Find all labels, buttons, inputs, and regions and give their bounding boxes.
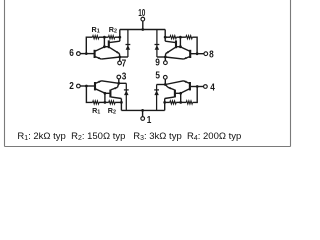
- wire R2 to rail riser: [115, 36, 121, 39]
- wire input 4 to Q7 base: [191, 86, 204, 88]
- svg-text:9: 9: [155, 58, 160, 69]
- wire Q7 emitter to output: [165, 81, 183, 85]
- wire rail riser BL: [120, 99, 122, 111]
- svg-text:2: 2: [69, 81, 74, 92]
- wire input 6 to Q1 base: [80, 53, 94, 55]
- resistor R2 lower: [109, 101, 115, 104]
- svg-text:R2: R2: [108, 106, 116, 116]
- svg-text:R1: 2kΩ typ R2: 150Ω typ R3: R1: 2kΩ typ R2: 150Ω typ R3: 3kΩ typ R4:…: [17, 131, 241, 142]
- pin 5 label: [155, 71, 160, 82]
- node output 7: [118, 56, 121, 59]
- resistor R4: [170, 36, 176, 39]
- node input 6 junction: [85, 52, 88, 55]
- caption resistor values: [17, 131, 241, 142]
- svg-text:1: 1: [147, 115, 152, 126]
- wire diode to output node right: [157, 56, 165, 58]
- node output 5: [164, 83, 167, 86]
- border frame left: [4, 0, 6, 147]
- svg-text:5: 5: [155, 71, 160, 82]
- pin 6 terminal: [77, 52, 81, 56]
- pin 4 label: [210, 82, 215, 93]
- transistor Q2: [109, 40, 120, 57]
- transistor Q6: [110, 83, 121, 98]
- transistor Q8: [165, 85, 175, 99]
- wire diode to output node BR: [157, 84, 166, 86]
- wire Q3 emitter to output: [165, 57, 183, 59]
- wire input riser BR: [193, 87, 198, 103]
- pin 7 label: [122, 59, 127, 70]
- resistor R3 lower: [186, 101, 192, 104]
- svg-text:8: 8: [209, 50, 214, 61]
- node N4: [179, 101, 182, 104]
- svg-text:6: 6: [69, 48, 74, 59]
- resistor R4 lower: [170, 101, 176, 104]
- pin 9 label: [155, 58, 160, 69]
- node N1: [103, 36, 106, 39]
- pin 7 terminal: [118, 57, 122, 65]
- resistor R1: [93, 36, 99, 39]
- node output 3: [117, 82, 120, 85]
- resistor R2: [108, 36, 114, 39]
- R1 label: [91, 25, 99, 35]
- pin 6 label: [69, 48, 74, 59]
- wire input riser BL: [86, 86, 92, 102]
- transistor Q7: [181, 81, 190, 93]
- svg-text:10: 10: [138, 8, 145, 19]
- wire diode to output node BL: [119, 82, 127, 84]
- border frame bottom: [5, 146, 291, 148]
- wire R2 to rail riser BL: [115, 101, 123, 104]
- wire bottom common rail: [121, 109, 164, 111]
- wire N3 to Q6 base: [104, 92, 111, 103]
- wire N1 to Q2 base: [103, 37, 109, 48]
- svg-text:R1: R1: [92, 106, 100, 116]
- node input 2 junction: [85, 85, 88, 88]
- transistor Q4: [165, 40, 176, 57]
- pin 2 label: [69, 81, 74, 92]
- pin 4 terminal: [204, 85, 208, 89]
- resistor R3: [186, 36, 192, 39]
- pin 3 terminal: [117, 75, 121, 83]
- svg-text:R2: R2: [109, 25, 117, 35]
- pin 1 terminal: [141, 109, 145, 120]
- svg-text:R1: R1: [91, 25, 99, 35]
- border frame right: [290, 0, 292, 147]
- diode D2: [155, 30, 160, 58]
- wire R1 to R2 BL: [99, 101, 109, 103]
- pin 10 terminal: [141, 17, 145, 31]
- wire input 2 to Q5 base: [80, 85, 94, 87]
- svg-text:7: 7: [122, 59, 127, 70]
- pin 10 label: [138, 8, 145, 19]
- diode D1: [126, 30, 131, 58]
- wire rail riser right: [164, 30, 166, 42]
- wire R3 to R4: [176, 36, 186, 38]
- pin 1 label: [147, 115, 152, 126]
- wire Q5 emitter to output: [102, 81, 119, 84]
- transistor Q1: [95, 47, 105, 59]
- wire input riser: [86, 37, 92, 53]
- wire N2 to Q4 base: [176, 37, 182, 48]
- node input 8 junction: [196, 52, 199, 55]
- pin 5 terminal: [163, 75, 167, 84]
- wire top common rail: [120, 29, 165, 31]
- wire input 8 to Q3 base: [190, 53, 204, 55]
- node N2: [179, 36, 182, 39]
- node input 4 junction: [196, 85, 199, 88]
- wire rail riser BR: [164, 99, 166, 111]
- pin 2 terminal: [77, 84, 81, 88]
- node N3: [104, 101, 107, 104]
- wire R4 to rail riser: [164, 36, 170, 39]
- R2 label lower: [108, 106, 116, 116]
- transistor Q3: [180, 47, 190, 59]
- R1 label lower: [92, 106, 100, 116]
- svg-text:3: 3: [122, 72, 127, 83]
- wire R3 to R4 BR: [176, 101, 186, 103]
- R2 label: [109, 25, 117, 35]
- diode D3: [124, 83, 129, 110]
- wire input riser right: [192, 37, 197, 54]
- node output 9: [164, 56, 167, 59]
- wire R1 to R2: [99, 36, 109, 38]
- svg-text:4: 4: [210, 82, 215, 93]
- wire rail riser: [119, 30, 121, 42]
- resistor R1 lower: [93, 101, 99, 104]
- wire Q1 emitter to output: [101, 57, 120, 59]
- transistor Q5: [95, 81, 105, 93]
- pin 8 terminal: [204, 52, 208, 56]
- wire diode to output node: [120, 56, 128, 58]
- pin 9 terminal: [164, 57, 168, 65]
- diode D4: [154, 85, 159, 111]
- wire R4 to rail riser BR: [163, 101, 170, 104]
- pin 3 label: [122, 72, 127, 83]
- wire N4 to Q8 base: [175, 92, 182, 103]
- pin 8 label: [209, 50, 214, 61]
